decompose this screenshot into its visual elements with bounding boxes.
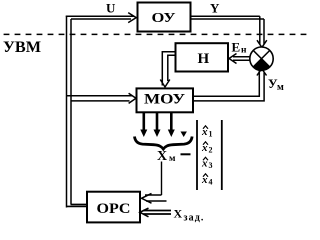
vector entry x3 hat	[201, 157, 213, 170]
arrowhead: short 4th state arrow	[181, 132, 187, 138]
wire: Y double line from ОУ right, then down to summing circle	[191, 16, 264, 44]
arrowhead: Ен into Н right edge	[229, 54, 237, 64]
label Ен	[232, 40, 248, 56]
svg-text:зад.: зад.	[184, 213, 205, 224]
svg-text:3: 3	[209, 161, 213, 170]
svg-text:м: м	[277, 82, 284, 93]
svg-text:УВМ: УВМ	[3, 39, 41, 56]
arrowhead: Ум into circle bottom	[257, 69, 267, 76]
summing junction circle with X and filled bottom sector	[250, 47, 273, 70]
block МОУ (model of plant)	[137, 88, 194, 112]
svg-text:2: 2	[209, 146, 213, 155]
arrowhead: Хзад into ОРС right edge	[140, 208, 149, 217]
wire: МОУ output double line, right then up to circle bottom	[193, 71, 264, 101]
wire: Ен double line from circle to Н	[233, 57, 250, 60]
svg-text:U: U	[106, 1, 116, 16]
arrowhead: Хм into ОРС right edge	[142, 193, 152, 203]
wire: Н output double line, left then down to МОУ	[162, 52, 175, 86]
equals dash after Хм	[181, 153, 191, 155]
svg-text:4: 4	[209, 178, 213, 187]
svg-text:ОУ: ОУ	[152, 11, 176, 26]
vector entry x4 hat	[201, 174, 213, 187]
underbrace gathering state signals	[135, 137, 193, 150]
wire: Хзад input double line	[143, 211, 171, 215]
svg-text:Е: Е	[232, 40, 241, 55]
arrowhead: Н output into МОУ top	[160, 80, 170, 88]
vector entry x1 hat	[201, 126, 213, 139]
wire: Хм feedback down and left into ОРС	[145, 162, 167, 202]
arrowhead: into МОУ left edge	[129, 93, 136, 103]
svg-text:м: м	[169, 154, 176, 164]
label Хзад.	[174, 206, 205, 223]
wire: U horizontal double line into ОУ	[66, 16, 134, 19]
wire: state output arrow 2 from МОУ bottom	[154, 112, 161, 137]
wire: left vertical double line (ОРС output rising to U)	[67, 16, 72, 208]
svg-text:МОУ: МОУ	[144, 92, 185, 108]
arrowhead: Y into circle top	[257, 40, 267, 47]
svg-text:Y: Y	[210, 1, 220, 16]
svg-text:1: 1	[209, 130, 213, 139]
state vector right bar	[221, 120, 223, 190]
block ОУ	[138, 3, 191, 32]
vector entry x2 hat	[201, 142, 213, 155]
block Н (observer)	[176, 43, 229, 71]
svg-text:н: н	[241, 46, 247, 56]
label Ум	[268, 76, 284, 93]
wire: state output arrow 1 from МОУ bottom	[140, 112, 147, 137]
wire: ОРС output double line to left vertical	[66, 204, 87, 206]
block ОРС (state regulator)	[87, 192, 140, 223]
dashed boundary line (УВМ / plant)	[4, 33, 312, 35]
wire: state output arrow 3 from МОУ bottom	[168, 112, 175, 137]
label Хм	[157, 149, 176, 164]
arrowhead: U into ОУ	[128, 13, 136, 23]
state vector left bar	[196, 120, 198, 190]
wire: U branch double line into МОУ left	[67, 96, 133, 101]
svg-text:Х: Х	[174, 206, 183, 220]
svg-text:ОРС: ОРС	[97, 201, 131, 217]
svg-text:Н: Н	[198, 51, 210, 67]
